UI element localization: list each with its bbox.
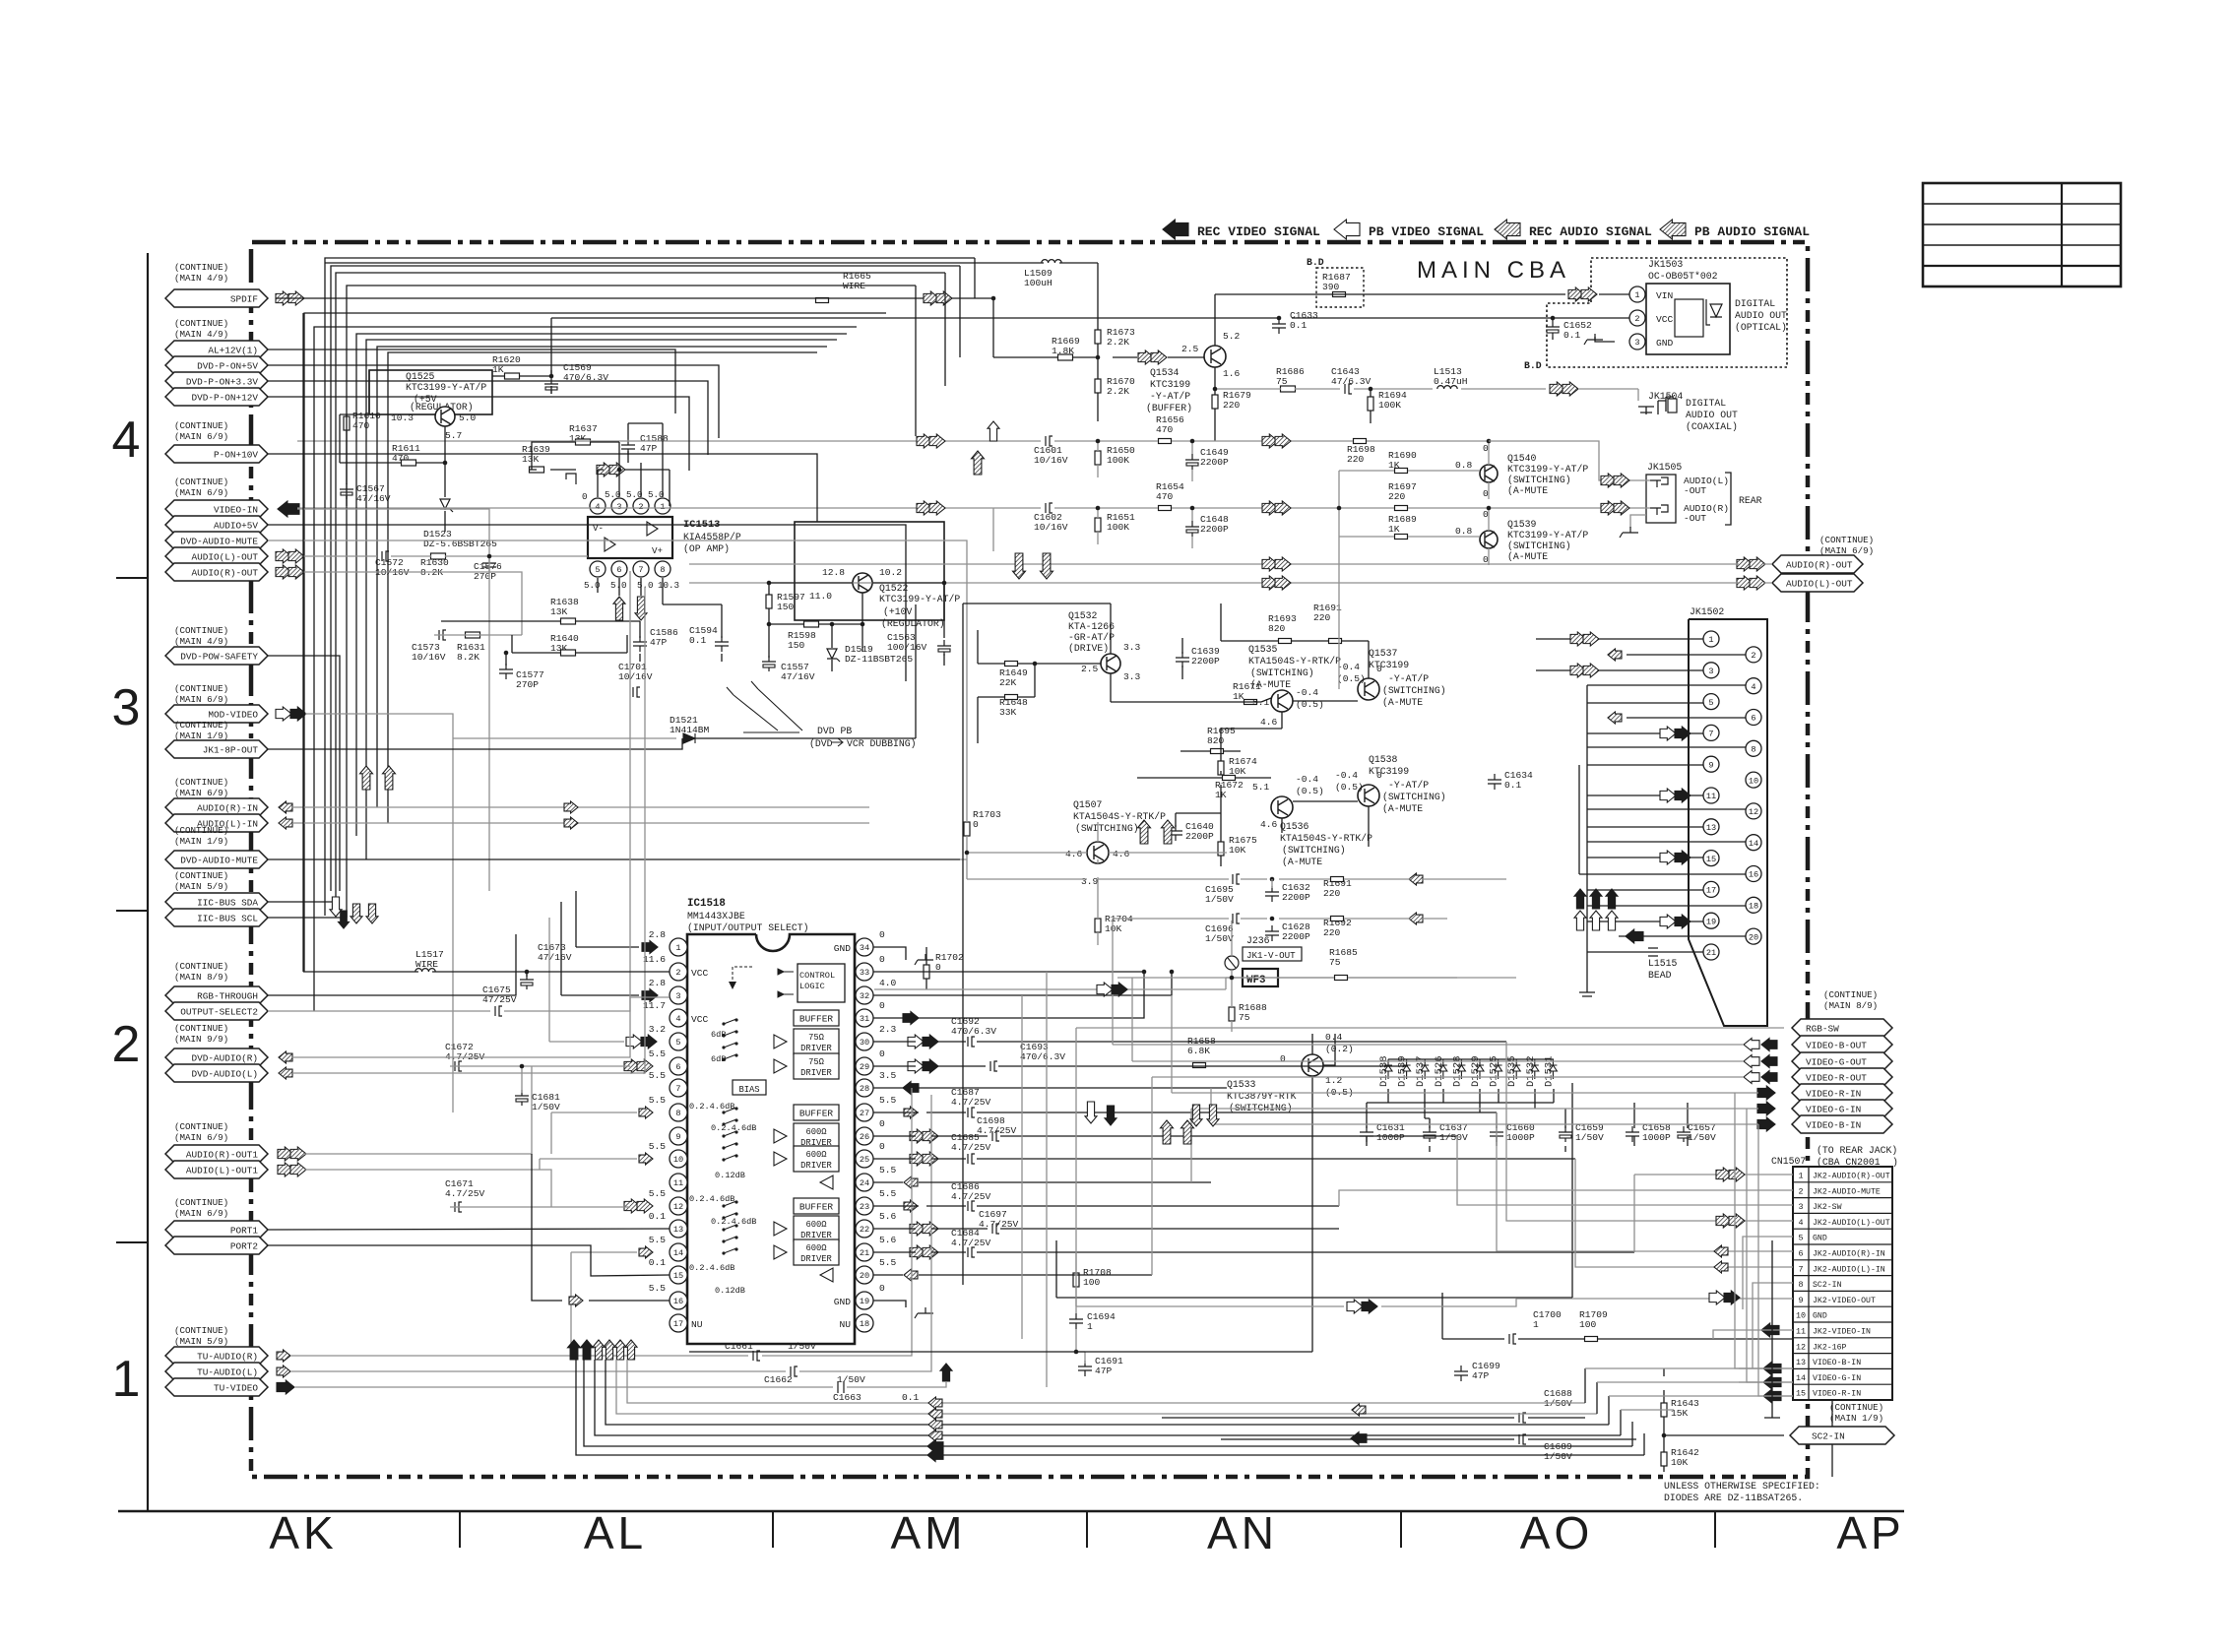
node arrows CN1507	[1716, 1168, 1732, 1181]
node arrow video out row9	[1347, 1300, 1363, 1313]
svg-text:2: 2	[112, 1016, 141, 1073]
svg-text:17: 17	[1706, 886, 1716, 896]
svg-text:7: 7	[638, 565, 643, 575]
svg-text:0: 0	[1483, 443, 1489, 454]
svg-text:6: 6	[616, 565, 621, 575]
wire mute line y933	[1113, 918, 1447, 920]
wire JK1503 pin3 gnd	[1595, 337, 1615, 342]
node VIDEO-IN arrow	[278, 501, 299, 517]
transistor Q1539	[1480, 531, 1498, 548]
svg-text:11: 11	[673, 1178, 683, 1188]
svg-text:JK1505: JK1505	[1647, 462, 1682, 473]
node AUDIO(R)-IN flag	[165, 798, 268, 816]
svg-text:JK1-8P-OUT: JK1-8P-OUT	[203, 745, 259, 756]
svg-text:(DRIVE): (DRIVE)	[1068, 643, 1109, 654]
node arrow video line	[1097, 983, 1113, 996]
node arrows on digital audio line	[1550, 382, 1565, 396]
svg-text:JK2-VIDEO-IN: JK2-VIDEO-IN	[1813, 1328, 1871, 1337]
svg-text:VIDEO-G-OUT: VIDEO-G-OUT	[1806, 1057, 1867, 1068]
arrow pin14	[639, 1246, 653, 1258]
svg-text:JK2-16P: JK2-16P	[1813, 1343, 1846, 1352]
arrow pin5	[626, 1035, 642, 1048]
wire pin5 feed	[549, 918, 624, 1042]
svg-text:Q1532: Q1532	[1068, 610, 1098, 621]
svg-text:270P: 270P	[516, 679, 539, 690]
wire AUDIO(R)-IN run	[292, 806, 869, 808]
op-amp IC1513 pins top	[590, 498, 606, 514]
svg-text:JK2-AUDIO-MUTE: JK2-AUDIO-MUTE	[1813, 1187, 1881, 1196]
svg-text:KTC3199-Y-AT/P: KTC3199-Y-AT/P	[1507, 530, 1588, 540]
svg-text:GND: GND	[1813, 1312, 1827, 1321]
svg-text:AUDIO OUT: AUDIO OUT	[1686, 410, 1738, 420]
ic IC1518 600ohm driver 25	[794, 1146, 839, 1172]
svg-text:8.2K: 8.2K	[457, 652, 479, 663]
svg-text:24: 24	[860, 1178, 869, 1188]
ic IC1518 pin 12	[670, 1197, 687, 1215]
svg-text:150: 150	[788, 640, 805, 651]
svg-text:-0.4: -0.4	[1337, 662, 1360, 672]
svg-text:5.6: 5.6	[879, 1211, 897, 1222]
svg-text:IIC-BUS SCL: IIC-BUS SCL	[197, 914, 258, 924]
svg-text:11: 11	[1796, 1327, 1806, 1337]
svg-text:10K: 10K	[1229, 845, 1246, 856]
frame row tick 3/2	[116, 910, 148, 912]
node arrows below IC1518	[568, 1340, 581, 1360]
ic IC1518 pin 24	[856, 1174, 873, 1191]
svg-text:(CONTINUE): (CONTINUE)	[174, 870, 228, 881]
arrow pin26	[910, 1129, 925, 1143]
node VIDEO-R-OUT flag	[1792, 1068, 1892, 1086]
svg-text:34: 34	[860, 943, 869, 953]
transistor Q1538	[1358, 785, 1379, 806]
connector JK1503 pin 2 VCC	[1629, 310, 1645, 326]
svg-text:(MAIN 6/9): (MAIN 6/9)	[174, 694, 228, 705]
node JK1-8P-OUT flag	[165, 740, 268, 758]
svg-text:4.0: 4.0	[879, 978, 897, 988]
svg-text:2200P: 2200P	[1200, 457, 1229, 468]
svg-text:(TO REAR JACK): (TO REAR JACK)	[1817, 1145, 1897, 1156]
node arrow JK1502 pin20	[1626, 929, 1643, 943]
label REAR bracket	[1725, 473, 1731, 525]
svg-text:27: 27	[860, 1109, 869, 1118]
connector JK1502 pin 19	[1703, 913, 1719, 928]
svg-text:(CONTINUE): (CONTINUE)	[174, 961, 228, 972]
arrow pin22	[910, 1222, 925, 1236]
ic IC1518 pin 8	[670, 1104, 687, 1121]
svg-text:15: 15	[673, 1271, 683, 1281]
svg-text:JK1503: JK1503	[1648, 259, 1683, 270]
frame column tick	[1400, 1511, 1402, 1548]
node SC2-IN bottom flag	[1790, 1427, 1894, 1444]
connector JK1502 pin 10	[1746, 772, 1761, 788]
svg-text:5.5: 5.5	[879, 1095, 897, 1106]
svg-text:(CONTINUE): (CONTINUE)	[174, 1325, 228, 1336]
svg-text:7: 7	[1798, 1264, 1803, 1274]
svg-text:AK: AK	[269, 1507, 337, 1558]
ic IC1518 pin 16	[670, 1292, 687, 1309]
node TU-VIDEO arrow	[277, 1380, 294, 1394]
svg-text:(SWITCHING): (SWITCHING)	[1382, 792, 1446, 802]
connector JK1504 jack	[1638, 397, 1674, 414]
svg-text:1: 1	[675, 943, 680, 953]
svg-text:0.12dB: 0.12dB	[715, 1171, 745, 1180]
wire right flag feeds	[1076, 1028, 1784, 1124]
svg-text:470: 470	[352, 420, 370, 431]
ic IC1518 600ohm driver 22	[794, 1216, 839, 1241]
svg-text:BIAS: BIAS	[738, 1085, 759, 1095]
ic IC1518 switch contacts	[722, 1022, 725, 1025]
wire C1633 junction	[1277, 316, 1282, 321]
connector JK1502 pin 21	[1703, 944, 1719, 960]
ic IC1518 bias box	[733, 1080, 766, 1095]
svg-text:0: 0	[879, 954, 885, 965]
svg-text:10: 10	[673, 1155, 683, 1165]
node MOD-VIDEO flag	[165, 705, 268, 723]
svg-text:220: 220	[1347, 454, 1365, 465]
node arrows IIC bus heads	[330, 897, 342, 917]
legend PB AUDIO SIGNAL arrow	[1660, 220, 1686, 239]
svg-text:25: 25	[860, 1155, 869, 1165]
svg-text:0.2.4.6dB: 0.2.4.6dB	[689, 1102, 734, 1112]
node arrows JK1505	[1601, 474, 1617, 487]
wire JK1-8P-OUT run	[268, 604, 916, 749]
svg-text:BUFFER: BUFFER	[799, 1109, 834, 1119]
wire DVD-AUDIO-MUTE run	[268, 540, 967, 879]
svg-text:75Ω: 75Ω	[808, 1033, 825, 1043]
svg-text:JK2-AUDIO(L)-IN: JK2-AUDIO(L)-IN	[1813, 1264, 1885, 1274]
ic IC1518 pin 31	[856, 1009, 873, 1027]
svg-text:30: 30	[860, 1038, 869, 1048]
svg-text:4.6: 4.6	[1113, 849, 1130, 859]
svg-text:AUDIO(R)-OUT: AUDIO(R)-OUT	[1786, 560, 1853, 571]
wire TU-VIDEO run	[294, 1382, 946, 1387]
wire VCC rail to JK1503 pin2	[551, 317, 1629, 319]
svg-text:20: 20	[1749, 932, 1758, 942]
wire R1620 to C1569	[492, 318, 551, 376]
svg-text:15: 15	[1706, 855, 1716, 864]
svg-text:5.5: 5.5	[649, 1141, 667, 1152]
wire CN1507 feeds	[1339, 1042, 1782, 1410]
wire Q1507 base feed	[960, 853, 1087, 859]
svg-text:470/6.3V: 470/6.3V	[951, 1026, 996, 1037]
wire C1700 R1709 row	[1442, 1293, 1793, 1339]
wire AUDIO(L)-OUT chain	[301, 555, 588, 557]
svg-text:10/16V: 10/16V	[1034, 522, 1068, 533]
wire L1515 gnd	[1579, 992, 1595, 996]
svg-text:BUFFER: BUFFER	[799, 1202, 834, 1213]
svg-text:VIDEO-IN: VIDEO-IN	[214, 505, 258, 516]
wire WF3 video line	[874, 978, 1516, 989]
ic IC1518 gnd 19	[915, 1307, 933, 1318]
svg-text:AM: AM	[891, 1507, 967, 1558]
wire DVD-AUDIO-MUTE2 run	[268, 858, 960, 860]
svg-text:(MAIN 1/9): (MAIN 1/9)	[174, 836, 228, 847]
wire SPDIF run	[276, 298, 1098, 357]
svg-text:KTA1504S-Y-RTK/P: KTA1504S-Y-RTK/P	[1248, 656, 1341, 667]
svg-text:GND: GND	[834, 943, 852, 954]
arrow pin3	[642, 989, 658, 1002]
wire DVD-POW-SAFETY run	[268, 656, 340, 891]
svg-text:0: 0	[582, 491, 588, 502]
svg-text:75: 75	[1329, 957, 1341, 968]
node VIDEO-IN flag	[165, 500, 268, 518]
node RGB-SW flag	[1792, 1019, 1892, 1037]
connector JK1502 pin 14	[1746, 835, 1761, 851]
arrow pin16	[569, 1295, 583, 1306]
ic IC1518 pin 4	[670, 1009, 687, 1027]
svg-text:-0.4: -0.4	[1296, 687, 1318, 698]
svg-text:6: 6	[675, 1062, 680, 1072]
svg-text:(MAIN 6/9): (MAIN 6/9)	[174, 487, 228, 498]
node arrows below C1602	[1013, 553, 1026, 579]
arrow pin10	[639, 1153, 653, 1165]
svg-text:Q1537: Q1537	[1369, 648, 1398, 659]
left arrow on C1628 line	[1409, 913, 1423, 924]
svg-text:0: 0	[879, 1141, 885, 1152]
wire right flag verticals	[1076, 919, 1211, 1306]
svg-text:KTC3199-Y-AT/P: KTC3199-Y-AT/P	[406, 382, 486, 393]
node IIC-BUS SDA flag	[165, 893, 268, 911]
svg-text:0.1: 0.1	[902, 1392, 920, 1403]
svg-text:0: 0	[1483, 509, 1489, 520]
svg-text:100K: 100K	[1378, 400, 1401, 411]
svg-text:C1661: C1661	[725, 1341, 753, 1352]
svg-text:L1515: L1515	[1648, 958, 1678, 969]
svg-text:REC AUDIO SIGNAL: REC AUDIO SIGNAL	[1529, 224, 1652, 239]
svg-text:1/50V: 1/50V	[1205, 933, 1234, 944]
svg-text:(CONTINUE): (CONTINUE)	[174, 1197, 228, 1208]
svg-text:VIDEO-G-IN: VIDEO-G-IN	[1806, 1105, 1861, 1115]
ic IC1518 control logic box	[797, 964, 845, 1002]
svg-text:(0.5): (0.5)	[1335, 782, 1364, 793]
svg-text:(CONTINUE): (CONTINUE)	[1823, 989, 1878, 1000]
svg-text:DRIVER: DRIVER	[800, 1161, 832, 1171]
svg-text:12: 12	[1749, 807, 1758, 817]
wire R1673 R1670 branch	[1097, 344, 1099, 421]
wire left top bus bundle	[325, 258, 975, 916]
wire Q1533 loop	[689, 1034, 1335, 1352]
svg-text:V+: V+	[652, 545, 663, 556]
svg-text:100uH: 100uH	[1024, 278, 1053, 288]
svg-text:220: 220	[1323, 927, 1341, 938]
wire IC1513 pin wires	[530, 423, 722, 621]
wire pin10 feed	[540, 1159, 637, 1170]
ic IC1518 pin 28	[856, 1079, 873, 1097]
svg-text:13: 13	[1796, 1358, 1806, 1367]
node RGB-THROUGH flag	[165, 986, 268, 1004]
svg-text:MOD-VIDEO: MOD-VIDEO	[208, 710, 258, 721]
ic IC1518 pin 5	[670, 1033, 687, 1050]
ic IC1518 pin 9	[670, 1127, 687, 1145]
node MOD-VIDEO arrows	[276, 707, 291, 721]
ground JK1505	[1630, 515, 1646, 528]
ground near IC1513 pin4	[566, 474, 576, 484]
svg-text:8: 8	[1798, 1280, 1803, 1290]
wire C1577 stub	[505, 653, 507, 666]
svg-text:13: 13	[1706, 823, 1716, 833]
svg-text:(CONTINUE): (CONTINUE)	[1829, 1402, 1883, 1413]
wire R1651 C1648 drops	[1098, 508, 1192, 548]
node arrows to IC1513	[597, 463, 612, 477]
wire SC2-IN chain	[1664, 1368, 1832, 1477]
wire audio out right flags	[689, 564, 1772, 583]
transistor Q1534	[1204, 346, 1226, 367]
wire PORT2 run	[268, 1245, 670, 1276]
connector JK1503 opto box	[1675, 299, 1703, 337]
node SPDIF flag	[165, 289, 268, 307]
svg-text:(DVD: (DVD	[809, 738, 833, 749]
svg-text:J236: J236	[1246, 935, 1270, 946]
ground for C1652	[1584, 334, 1603, 345]
svg-text:(0.5): (0.5)	[1296, 786, 1324, 796]
wire J236 column	[1231, 921, 1233, 1032]
svg-text:DVD-P-ON+3.3V: DVD-P-ON+3.3V	[186, 377, 259, 388]
svg-text:4.6: 4.6	[1260, 717, 1278, 728]
svg-text:-GR-AT/P: -GR-AT/P	[1068, 632, 1115, 643]
connector JK1503 pin 3 GND	[1629, 334, 1645, 349]
connector JK1502 pin 2	[1746, 647, 1761, 663]
arrow pin31	[903, 1012, 919, 1025]
node DVD-POW-SAFETY flag	[165, 647, 268, 665]
svg-text:PORT2: PORT2	[230, 1241, 258, 1252]
svg-text:VIDEO-B-IN: VIDEO-B-IN	[1806, 1120, 1861, 1131]
svg-text:GND: GND	[1813, 1235, 1827, 1243]
svg-text:3: 3	[1634, 338, 1639, 348]
svg-text:0: 0	[879, 1118, 885, 1129]
svg-text:(A-MUTE: (A-MUTE	[1507, 551, 1548, 562]
svg-text:(A-MUTE: (A-MUTE	[1282, 857, 1322, 867]
node AL+12V(1) flag	[165, 341, 268, 358]
svg-text:4: 4	[1751, 682, 1755, 692]
svg-text:5.0: 5.0	[605, 489, 621, 500]
svg-text:(CONTINUE): (CONTINUE)	[174, 777, 228, 788]
svg-text:(A-MUTE: (A-MUTE	[1382, 697, 1423, 708]
revision table	[1923, 183, 2121, 286]
wire vertical risers right of IC1518	[1022, 972, 1047, 1387]
wire AUDIO(L)-OUT1 run	[305, 1170, 630, 1207]
node AUDIO(L)-OUT flag	[165, 547, 268, 565]
svg-text:JK2-SW: JK2-SW	[1813, 1203, 1842, 1212]
svg-text:Q1540: Q1540	[1507, 453, 1537, 464]
svg-text:2: 2	[1751, 651, 1755, 661]
wire C1588 stub	[627, 451, 629, 463]
svg-text:VCC: VCC	[691, 968, 709, 979]
ic IC1518 pin 14	[670, 1243, 687, 1261]
svg-text:1000P: 1000P	[1506, 1132, 1535, 1143]
connector JK1503 led symbol	[1706, 299, 1722, 325]
svg-text:VIDEO-R-OUT: VIDEO-R-OUT	[1806, 1073, 1867, 1084]
svg-text:OC-OB05T*002: OC-OB05T*002	[1648, 271, 1718, 282]
node AUDIO(L)-OUT1 arrows	[278, 1163, 293, 1176]
svg-text:0.8: 0.8	[1455, 526, 1473, 537]
svg-text:4: 4	[675, 1014, 680, 1024]
svg-text:220: 220	[1313, 612, 1331, 623]
svg-text:2.5: 2.5	[1181, 344, 1199, 354]
svg-text:JK1502: JK1502	[1690, 606, 1724, 617]
svg-text:47/16V: 47/16V	[356, 493, 391, 504]
svg-text:4.7/25V: 4.7/25V	[951, 1238, 991, 1248]
svg-text:75: 75	[1276, 376, 1288, 387]
node VIDEO-G-OUT arrows	[1761, 1055, 1777, 1068]
svg-text:KTA-1266: KTA-1266	[1068, 621, 1115, 632]
node AUDIO+5V flag	[165, 516, 268, 534]
svg-text:VIDEO-B-IN: VIDEO-B-IN	[1813, 1359, 1861, 1367]
svg-text:VIDEO-G-IN: VIDEO-G-IN	[1813, 1374, 1861, 1383]
node arrows right cluster up	[1574, 889, 1586, 909]
svg-text:VIDEO-R-IN: VIDEO-R-IN	[1806, 1089, 1861, 1100]
ic IC1518 pin 6	[670, 1057, 687, 1075]
wire C1688 C1689 rows	[1162, 1418, 1636, 1439]
wire Q1534 emitter	[1214, 367, 1216, 441]
wire Q1525 collector rail	[340, 370, 445, 532]
svg-text:(CONTINUE): (CONTINUE)	[174, 683, 228, 694]
svg-text:JK2-AUDIO(R)-IN: JK2-AUDIO(R)-IN	[1813, 1249, 1885, 1259]
svg-text:DVD PB: DVD PB	[817, 726, 852, 736]
svg-text:5.6: 5.6	[879, 1235, 897, 1245]
svg-text:Q1522: Q1522	[879, 583, 909, 594]
svg-text:B.D: B.D	[1524, 360, 1542, 371]
node DVD-AUDIO-MUTE flag	[165, 532, 268, 549]
wire AUDIO(R)-OUT chain	[301, 572, 522, 635]
node AUDIO(L)-OUT arrows	[276, 549, 291, 563]
svg-text:-0.4: -0.4	[1335, 770, 1358, 781]
svg-text:47P: 47P	[1095, 1366, 1113, 1376]
frame column tick	[1086, 1511, 1088, 1548]
node arrows left of diodes	[1161, 1120, 1174, 1144]
svg-text:5.0: 5.0	[459, 413, 477, 423]
ic IC1518 pin 7	[670, 1079, 687, 1097]
wire Q1522 power box	[769, 583, 944, 666]
node OUTPUT-SELECT2 flag	[165, 1002, 268, 1020]
ic IC1518 dashed control arrow	[733, 967, 752, 985]
connector JK1502 pin 12	[1746, 803, 1761, 819]
svg-text:390: 390	[1322, 282, 1340, 292]
svg-text:33K: 33K	[999, 707, 1017, 718]
vertical arrows below IC1513 pins 6 7	[613, 597, 625, 620]
connector JK1505 jacks	[1646, 475, 1676, 523]
wire C1594 C1586 column	[640, 621, 722, 662]
arrow pin29	[908, 1059, 924, 1073]
connector JK1502 pin 17	[1703, 881, 1719, 897]
ic IC1518 gnd 34	[915, 954, 933, 965]
connector JK1502 pin 1	[1703, 631, 1719, 647]
svg-text:C1662: C1662	[764, 1374, 793, 1385]
connector JK1503 dotted enclosure	[1547, 258, 1787, 367]
wire JK2 video out y1327	[1076, 1299, 1793, 1306]
connector JK1503 pin 1 VIN	[1629, 286, 1645, 302]
svg-text:(SWITCHING): (SWITCHING)	[1382, 685, 1446, 696]
node VIDEO-R-OUT arrows	[1761, 1071, 1777, 1084]
svg-text:DRIVER: DRIVER	[800, 1044, 832, 1053]
ic IC1518 600ohm driver 26	[794, 1123, 839, 1149]
svg-text:IIC-BUS SDA: IIC-BUS SDA	[197, 898, 258, 909]
wire AUDIO+5V run	[268, 525, 906, 681]
svg-text:10/16V: 10/16V	[412, 652, 446, 663]
svg-text:5.2: 5.2	[1223, 331, 1241, 342]
arrow pin24	[904, 1176, 918, 1188]
ic IC1518 pin 32	[856, 986, 873, 1004]
wire pin14 feed	[571, 1252, 637, 1356]
connector JK1503 body	[1646, 284, 1730, 354]
wire RGB-THROUGH run	[268, 934, 516, 995]
svg-text:C1663: C1663	[833, 1392, 861, 1403]
svg-text:1: 1	[1708, 635, 1713, 645]
svg-text:19: 19	[1706, 917, 1716, 926]
svg-text:470/6.3V: 470/6.3V	[1020, 1051, 1065, 1062]
svg-text:Q1507: Q1507	[1073, 799, 1103, 810]
svg-text:(MAIN 1/9): (MAIN 1/9)	[1829, 1413, 1883, 1424]
waveform WF3 box	[1243, 969, 1278, 986]
